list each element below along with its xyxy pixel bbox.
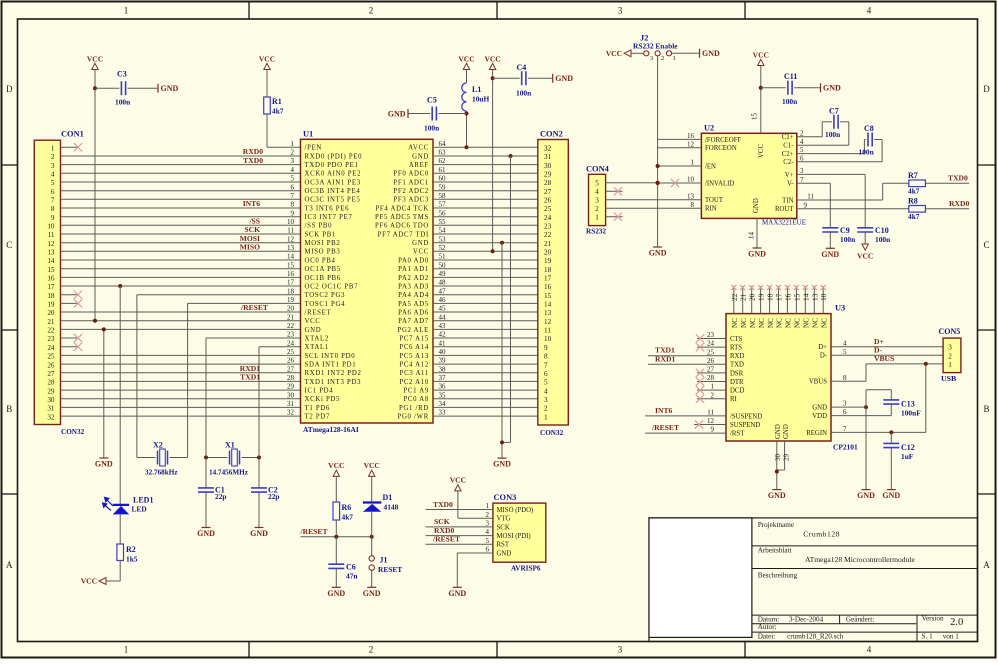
svg-text:NC: NC [812,318,820,328]
svg-text:21: 21 [544,240,552,248]
svg-text:GND: GND [197,529,215,538]
svg-text:GND: GND [783,424,790,439]
svg-text:NC: NC [767,318,775,328]
svg-text:60: 60 [439,175,447,183]
svg-text:4k7: 4k7 [342,513,354,522]
svg-text:TXD0: TXD0 [433,500,453,509]
svg-text:55: 55 [439,218,447,226]
svg-text:VCC: VCC [758,144,765,158]
svg-text:3: 3 [843,400,847,408]
capacitor C12 [883,432,914,489]
wire bus row U1 pin 42 to CON2 [433,337,538,339]
svg-text:/RESET: /RESET [651,423,679,432]
junction INVALID row [656,181,660,185]
ground GND at J2 [700,49,721,58]
svg-text:CTS: CTS [730,336,743,343]
svg-text:3: 3 [544,396,548,404]
svg-text:MOSI (PDI): MOSI (PDI) [497,533,531,540]
svg-text:GND: GND [882,491,900,500]
svg-text:23: 23 [47,335,55,343]
wire L1 to AVCC row [466,111,468,147]
svg-text:2: 2 [544,405,548,413]
svg-text:32: 32 [544,145,552,153]
svg-text:/EN: /EN [705,163,716,170]
svg-text:34: 34 [439,400,447,408]
junction GND row63 [509,154,513,158]
svg-text:PF2 ADC2: PF2 ADC2 [393,188,429,195]
svg-text:11: 11 [48,231,55,239]
svg-text:REGIN: REGIN [806,430,827,437]
svg-text:13: 13 [810,293,819,301]
junction R6-C6 [334,535,338,539]
svg-text:1: 1 [544,413,548,421]
junction VCC-C3 [93,86,97,90]
svg-text:1: 1 [691,159,695,167]
svg-text:OC2 OC1C PB7: OC2 OC1C PB7 [305,283,359,290]
svg-text:5: 5 [843,348,847,356]
svg-text:16: 16 [544,283,552,291]
wire bus row U1 pin 39 to CON2 [433,363,538,365]
svg-text:VCC: VCC [857,252,873,261]
resistor R1 [264,70,284,116]
svg-text:C6: C6 [346,563,356,572]
svg-text:TOSC1 PG4: TOSC1 PG4 [305,301,346,308]
svg-text:12: 12 [544,318,552,326]
power VCC symbol at CON3 [450,476,466,491]
wire bus row 12 CON1-U1 [61,242,301,244]
svg-text:14: 14 [544,301,552,309]
svg-text:C8: C8 [864,124,874,133]
svg-text:48: 48 [439,279,447,287]
svg-text:32: 32 [47,413,55,421]
svg-text:XCK0 AIN0 PE2: XCK0 AIN0 PE2 [305,171,362,178]
capacitor C11 [761,72,821,106]
ground GND below CON2 [493,458,511,469]
svg-text:C12: C12 [901,443,915,452]
svg-text:1: 1 [124,645,129,655]
svg-text:27: 27 [47,370,55,378]
svg-text:PG1 /RD: PG1 /RD [399,405,429,412]
svg-text:TXD: TXD [730,362,744,369]
svg-text:VCC: VCC [364,461,380,470]
svg-text:TXD0: TXD0 [243,156,263,165]
svg-text:14.7456MHz: 14.7456MHz [209,469,249,477]
svg-text:2: 2 [595,205,599,213]
ground GND below J1 [363,587,381,598]
svg-text:5: 5 [595,180,599,188]
wire U3 GND pin3 [831,406,866,408]
chip U2 MAX3221EUE [701,123,806,226]
svg-text:PC5 A13: PC5 A13 [399,353,429,360]
wire TIN to R7 [797,183,909,200]
svg-text:30: 30 [774,454,782,462]
svg-text:crumb128_R20.sch: crumb128_R20.sch [787,632,844,640]
svg-text:8: 8 [291,201,295,209]
wire bus row U1 pin 47 to CON2 [433,294,538,296]
svg-text:3: 3 [650,55,653,62]
wire bus row 28 CON1-U1 [61,380,301,382]
svg-text:8: 8 [843,374,847,382]
wire LED trunk [119,286,121,504]
svg-text:4: 4 [544,387,548,395]
junction VCC row52 [491,249,495,253]
wire LED to R2 [119,514,121,544]
svg-text:3-Dec-2004: 3-Dec-2004 [789,615,824,623]
svg-text:100n: 100n [875,235,890,244]
wire bus row 22 CON1-U1 [61,328,301,330]
wire VBUS to REGIN [925,364,927,433]
svg-text:PC4 A12: PC4 A12 [399,362,429,369]
svg-text:AVRISP6: AVRISP6 [511,565,541,573]
capacitor C1 [198,458,227,528]
svg-text:20: 20 [287,305,295,313]
svg-text:CON32: CON32 [61,428,85,436]
svg-text:U2: U2 [704,123,714,132]
wire bus row 9 CON1-U1 [61,216,301,218]
svg-text:C7: C7 [829,107,839,116]
svg-text:VCC: VCC [328,461,344,470]
svg-text:C9: C9 [840,226,850,235]
svg-text:2: 2 [369,6,374,16]
svg-text:22p: 22p [215,492,227,501]
svg-text:57: 57 [439,201,447,209]
svg-text:17: 17 [544,275,552,283]
svg-text:33: 33 [439,409,447,417]
svg-text:/RESET: /RESET [305,309,332,316]
svg-text:PF1 ADC1: PF1 ADC1 [393,179,429,186]
svg-text:8: 8 [691,201,695,209]
connector CON4 RS232 [586,164,610,235]
svg-text:PG2 ALE: PG2 ALE [397,327,429,334]
svg-text:30: 30 [47,396,55,404]
power VCC symbol above L1 [458,54,474,69]
svg-text:ATmega128-16AI: ATmega128-16AI [303,425,359,434]
svg-text:12: 12 [47,240,55,248]
svg-text:15: 15 [792,293,801,301]
chip U1 ATmega128-16AI [301,129,434,434]
wire bus row U1 pin 38 to CON2 [433,372,538,374]
power VCC symbol above U2 [753,50,769,65]
svg-text:1: 1 [486,502,490,510]
svg-text:29: 29 [544,171,552,179]
svg-text:NC: NC [794,318,802,328]
svg-text:4: 4 [843,339,847,347]
svg-text:GND: GND [493,460,511,469]
svg-text:46: 46 [439,296,447,304]
junction U3 GND pins [775,470,779,474]
svg-text:RXD1: RXD1 [240,364,260,373]
svg-text:27: 27 [287,365,295,373]
svg-text:5: 5 [544,379,548,387]
svg-text:29: 29 [782,454,790,462]
svg-text:17: 17 [47,283,55,291]
svg-text:GND: GND [555,74,573,83]
svg-text:10: 10 [47,223,55,231]
svg-text:SCK PB1: SCK PB1 [305,231,337,238]
svg-text:17: 17 [775,293,784,301]
U1 left pin numbers [287,140,295,417]
wire bus row U1 pin 44 to CON2 [433,320,538,322]
unconnected stub CON1 pin 1 [61,143,83,151]
svg-text:R8: R8 [908,197,918,206]
svg-text:4k7: 4k7 [908,187,920,196]
wire /RESET to CON3 pin5 [426,543,493,545]
svg-text:25: 25 [544,205,552,213]
ground GND below C12 [882,490,900,501]
junction X1 right C2 [257,456,261,460]
svg-text:PF5 ADC5 TMS: PF5 ADC5 TMS [375,214,429,221]
svg-text:10: 10 [819,293,828,301]
wire bus row U1 pin 50 to CON2 [433,268,538,270]
svg-text:S. 1: S. 1 [922,632,934,640]
wire XTAL1 net row24 [259,347,301,458]
svg-text:100nF: 100nF [901,409,921,418]
svg-text:100n: 100n [782,97,797,106]
wire bus row 27 CON1-U1 [61,372,301,374]
wire bus row 2 CON1-U1 [61,155,301,157]
svg-text:R6: R6 [342,503,352,512]
ground GND below C2 [250,528,268,539]
svg-text:10: 10 [287,218,295,226]
svg-text:52: 52 [439,244,447,252]
svg-text:L1: L1 [472,85,481,94]
svg-text:7: 7 [51,197,55,205]
wire J2 to U2 pin12 [658,147,702,149]
svg-text:RI: RI [730,396,738,403]
svg-text:3: 3 [800,167,804,175]
svg-text:22: 22 [544,231,552,239]
svg-text:24: 24 [287,339,295,347]
svg-text:19: 19 [757,293,766,301]
svg-text:VCC: VCC [87,54,103,63]
svg-text:6: 6 [486,546,490,554]
svg-text:17: 17 [287,279,295,287]
svg-text:4k7: 4k7 [908,212,920,221]
ground GND below C6 [327,587,345,598]
svg-text:Arbeitsblatt: Arbeitsblatt [758,546,792,554]
svg-text:43: 43 [439,322,447,330]
wire bus row U1 pin 35 to CON2 [433,398,538,400]
svg-text:16: 16 [287,270,295,278]
wire bus row U1 pin 60 to CON2 [433,181,538,183]
wire U3 pins 30 29 to GND [777,441,785,490]
svg-text:/SS PB0: /SS PB0 [305,223,333,230]
svg-text:3: 3 [595,197,599,205]
svg-text:V-: V- [787,181,794,188]
svg-text:ATmega128 Microcontrollermodul: ATmega128 Microcontrollermodule [805,555,915,564]
junction CON4 pin5 [656,181,660,185]
svg-text:26: 26 [707,357,715,365]
wire bus row 8 CON1-U1 [61,207,301,209]
svg-text:3: 3 [948,344,952,352]
wire U3 D+ to CON5 [831,346,943,348]
svg-text:1: 1 [711,383,715,391]
crystal X2 [137,441,188,477]
junction C12 tap [889,430,893,434]
unconnected stub U3 pin 1 [696,386,726,394]
svg-text:13: 13 [544,309,552,317]
svg-text:6: 6 [544,370,548,378]
connector CON1 [34,130,84,436]
svg-text:VCC: VCC [450,476,466,485]
svg-text:1: 1 [948,361,952,369]
wire VCC trunk left [94,70,96,321]
svg-text:VDD: VDD [812,413,827,420]
svg-text:OC3B INT4 PE4: OC3B INT4 PE4 [305,188,361,195]
power VCC arrow at J2 [606,49,631,58]
junction EN row [656,164,660,168]
svg-text:29: 29 [47,387,55,395]
svg-text:VBUS: VBUS [809,379,827,386]
svg-text:7: 7 [291,192,295,200]
U3 right pin numbers [843,339,847,433]
svg-text:64: 64 [439,140,447,148]
svg-text:C4: C4 [517,63,527,72]
wire SCK to CON3 pin3 [426,526,493,528]
unconnected stub U3 pin 23 [696,334,726,342]
svg-text:2: 2 [711,391,715,399]
svg-text:RS232 Enable: RS232 Enable [633,42,678,51]
svg-text:SCK: SCK [244,225,260,234]
svg-text:XTAL1: XTAL1 [305,344,329,351]
unconnected stub U3 pin 24 [696,343,726,351]
svg-text:23: 23 [544,223,552,231]
wire bus row U1 pin 59 to CON2 [433,190,538,192]
svg-text:GND: GND [412,153,429,160]
svg-text:D: D [6,84,13,94]
wire J2 to U2 pin16 [658,138,702,140]
wire bus row U1 pin 51 to CON2 [433,259,538,261]
svg-text:47n: 47n [346,572,358,581]
ground GND below CON1 [95,458,113,469]
svg-text:5: 5 [800,146,804,154]
wire VCC to J2 pin3 [631,52,644,54]
svg-text:VCC: VCC [606,49,622,58]
svg-text:62: 62 [439,157,447,165]
svg-text:20: 20 [544,249,552,257]
svg-text:49: 49 [439,270,447,278]
svg-text:23: 23 [707,331,715,339]
capacitor C13 [831,390,921,418]
svg-text:MAX3221EUE: MAX3221EUE [762,219,806,227]
wire bus row 14 CON1-U1 [61,259,301,261]
junction C11 tap [759,86,763,90]
unconnected stub CON4 pin1 [606,213,623,221]
svg-text:MISO (PDO): MISO (PDO) [497,507,534,514]
svg-text:5: 5 [291,175,295,183]
svg-text:TXD0: TXD0 [948,173,968,182]
svg-text:PA4 AD4: PA4 AD4 [398,292,429,299]
svg-text:T3 INT6 PE6: T3 INT6 PE6 [305,205,350,212]
svg-text:OC3C INT5 PE5: OC3C INT5 PE5 [305,197,361,204]
svg-text:CON1: CON1 [61,130,84,139]
svg-text:32: 32 [287,409,295,417]
svg-text:GND: GND [823,84,841,93]
svg-text:Beschreibung: Beschreibung [758,572,798,580]
svg-text:20: 20 [748,293,757,301]
svg-text:MISO: MISO [240,243,260,252]
wire bus row 11 CON1-U1 [61,233,301,235]
ground GND below C1 [197,528,215,539]
svg-text:12: 12 [707,417,715,425]
junction X1 left C1 [204,456,208,460]
svg-text:6: 6 [51,188,55,196]
svg-text:6: 6 [800,154,804,162]
svg-text:PA7 AD7: PA7 AD7 [398,318,429,325]
svg-text:OC1B PB6: OC1B PB6 [305,275,341,282]
wire VCC to CON3 pin2 [458,491,493,518]
junction GND merge [500,440,504,444]
svg-text:11: 11 [807,193,814,201]
svg-text:23: 23 [287,331,295,339]
wire TXD0 to CON3 pin1 [426,509,493,511]
capacitor C7 [797,107,849,146]
svg-text:4k7: 4k7 [272,107,284,116]
wire R7 to TXD0 [925,182,969,184]
svg-text:5: 5 [486,537,490,545]
svg-text:19: 19 [47,301,55,309]
wire bus row U1 pin 55 to CON2 [433,224,538,226]
svg-text:INT6: INT6 [243,199,261,208]
svg-text:NC: NC [740,318,748,328]
wire CON4 pin2 to RIN [606,207,702,209]
svg-text:C13: C13 [901,400,915,409]
svg-text:T1 PD6: T1 PD6 [305,405,331,412]
svg-text:37: 37 [439,374,447,382]
wire bus row 13 CON1-U1 [61,250,301,252]
diode D1 4148 [363,476,399,536]
svg-text:1uF: 1uF [901,452,914,461]
wire J2 pin1 to GND [672,52,700,54]
wire GND trunk row22 [103,329,105,458]
svg-text:FORCEON: FORCEON [705,145,737,152]
junction GND row53 [500,241,504,245]
wire RXD0 to CON3 pin4 [426,535,493,537]
svg-text:2: 2 [291,149,295,157]
svg-text:/RESET: /RESET [432,535,460,544]
svg-text:1: 1 [51,145,55,153]
svg-text:26: 26 [287,357,295,365]
svg-text:18: 18 [766,293,775,301]
ground GND at C11 [821,83,842,92]
svg-text:R2: R2 [126,545,136,554]
wire U2 pin15 VCC [760,66,762,134]
svg-text:24: 24 [707,340,715,348]
wire bus row U1 pin 36 to CON2 [433,389,538,391]
resistor R2 [117,544,138,564]
svg-text:C: C [6,240,12,250]
svg-text:GND: GND [775,424,782,439]
svg-text:R7: R7 [908,171,918,180]
unconnected stub CON1 pin 24 [61,343,83,351]
svg-text:12: 12 [287,235,295,243]
svg-text:B: B [6,404,12,414]
svg-text:TXD1: TXD1 [240,373,260,382]
capacitor C8 [797,124,882,162]
svg-text:U3: U3 [835,304,845,313]
svg-text:C1-: C1- [783,143,794,150]
svg-text:CON4: CON4 [586,164,610,173]
svg-text:GND: GND [448,589,466,598]
svg-text:9: 9 [804,201,808,209]
svg-text:14: 14 [287,253,295,261]
svg-text:3: 3 [51,162,55,170]
svg-text:11: 11 [544,327,551,335]
svg-text:PA5 AD5: PA5 AD5 [398,301,429,308]
svg-text:GND: GND [95,460,113,469]
svg-text:MOSI PB2: MOSI PB2 [305,240,341,247]
wire bus row U1 pin 54 to CON2 [433,233,538,235]
